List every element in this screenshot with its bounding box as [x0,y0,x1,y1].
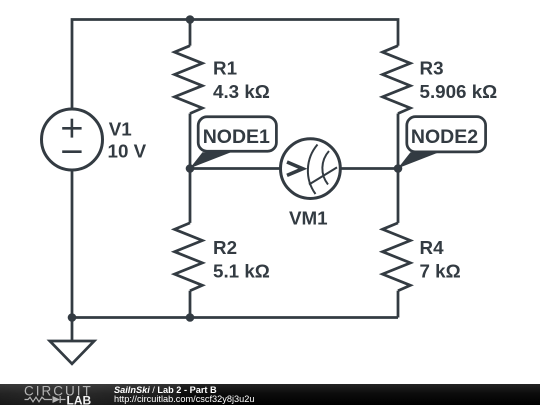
svg-text:R1: R1 [213,58,237,79]
svg-text:R4: R4 [420,237,445,258]
svg-text:7 kΩ: 7 kΩ [420,260,461,281]
svg-text:R2: R2 [213,237,237,258]
svg-text:http://circuitlab.com/cscf32y8: http://circuitlab.com/cscf32y8j3u2u [114,394,254,404]
svg-text:NODE1: NODE1 [203,126,270,148]
svg-text:10 V: 10 V [108,141,147,162]
svg-text:4.3 kΩ: 4.3 kΩ [213,81,270,102]
svg-text:VM1: VM1 [289,208,328,229]
svg-text:V1: V1 [109,118,132,139]
svg-text:NODE2: NODE2 [411,126,478,148]
svg-text:LAB: LAB [67,393,92,405]
svg-text:5.1 kΩ: 5.1 kΩ [213,260,270,281]
svg-text:R3: R3 [420,58,444,79]
svg-text:5.906 kΩ: 5.906 kΩ [420,81,498,102]
